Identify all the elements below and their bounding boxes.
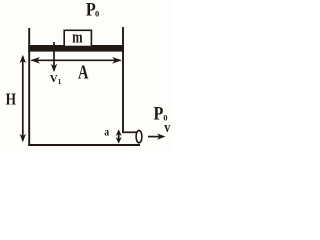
svg-text:P: P bbox=[154, 102, 164, 124]
svg-text:0: 0 bbox=[95, 9, 99, 19]
svg-text:a: a bbox=[104, 126, 109, 139]
svg-text:m: m bbox=[72, 29, 82, 47]
svg-text:v: v bbox=[164, 119, 170, 136]
svg-text:H: H bbox=[6, 90, 16, 109]
svg-text:V1: V1 bbox=[50, 73, 62, 86]
svg-text:A: A bbox=[78, 62, 89, 84]
